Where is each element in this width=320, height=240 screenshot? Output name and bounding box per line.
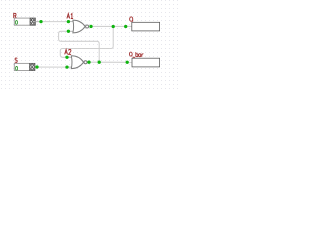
label A1 (67, 14, 73, 19)
label A2 (65, 49, 71, 54)
wire S to A2 input 2 (35, 66, 68, 68)
input switch S (14, 63, 36, 70)
wire A2 output to Q_bar (89, 61, 132, 63)
NOR gate A1 (68, 20, 88, 33)
node A1 input 2 (67, 30, 70, 33)
input switch R (14, 18, 39, 25)
output probe Q_bar (132, 58, 160, 67)
node S pin (35, 65, 38, 68)
label Q (130, 17, 133, 22)
label R (14, 13, 16, 18)
wire R to A1 input 1 (35, 21, 68, 23)
node junction on Q_bar wire (98, 61, 101, 64)
node Q probe pin (124, 25, 127, 28)
output probe Q (132, 22, 160, 31)
node junction on Q wire (112, 25, 115, 28)
node A2 input 1 (65, 56, 68, 59)
node Q_bar probe pin (126, 61, 129, 64)
NOR gate A2 (67, 56, 87, 69)
node A1 input 1 (67, 20, 70, 23)
wire A1 output to Q (91, 25, 132, 27)
label S (15, 58, 17, 62)
node A1 output (89, 25, 92, 28)
node R pin (39, 20, 42, 23)
wire feedback from Q_bar node to A1 input 2 (59, 31, 100, 62)
node A2 output (87, 61, 90, 64)
node A2 input 2 (65, 65, 68, 68)
label Q_bar (129, 52, 143, 57)
wire feedback from Q node to A2 input 1 (60, 27, 113, 58)
